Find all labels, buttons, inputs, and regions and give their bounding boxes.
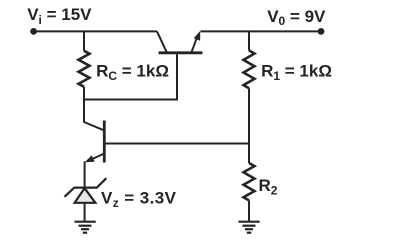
wire DZ anode to ground bbox=[84, 203, 86, 222]
transistor Q2 base bar bbox=[103, 121, 106, 163]
node Vo terminal dot bbox=[318, 28, 325, 35]
transistor Q1 emitter arrow bbox=[194, 31, 201, 41]
wire right branch top (Vo rail to R1) bbox=[248, 30, 250, 50]
transistor Q2 emitter lead bbox=[88, 154, 104, 162]
transistor Q2 collector lead bbox=[84, 122, 104, 131]
wire Q2 base to node B bbox=[104, 143, 250, 145]
node Vi terminal dot bbox=[30, 28, 37, 35]
wire RC top (Vi rail to RC) bbox=[83, 30, 85, 50]
svg-text:V0 = 9V: V0 = 9V bbox=[267, 7, 326, 28]
wire node A to Q1 base bbox=[83, 99, 177, 101]
wire Vi rail (input rail from Vi terminal to Q1 collector) bbox=[34, 30, 157, 32]
wire R2 bottom to ground bbox=[248, 200, 250, 221]
transistor Q1 emitter lead bbox=[191, 36, 197, 53]
wire RC bottom to node A and Q2 collector bbox=[83, 87, 85, 123]
svg-text:Vi = 15V: Vi = 15V bbox=[27, 5, 92, 27]
resistor RC bbox=[79, 51, 90, 87]
wire Vo rail (Q1 emitter to Vo terminal) bbox=[201, 30, 322, 32]
resistor R2 bbox=[244, 163, 255, 200]
ground symbol right (under R2) bbox=[238, 222, 259, 233]
transistor Q1 base bar bbox=[159, 51, 203, 54]
svg-text:Vz = 3.3V: Vz = 3.3V bbox=[101, 188, 177, 210]
transistor Q1 collector lead bbox=[157, 31, 167, 52]
resistor R1 bbox=[244, 50, 255, 88]
zener diode DZ anode triangle bbox=[75, 188, 96, 203]
wire Q1 base lead bbox=[176, 53, 178, 101]
wire Q2 emitter to zener DZ bbox=[84, 162, 86, 189]
svg-text:R1 = 1kΩ: R1 = 1kΩ bbox=[261, 61, 332, 83]
transistor Q2 emitter arrow bbox=[85, 155, 95, 162]
wire R1 bottom to node B and R2 bbox=[248, 88, 250, 163]
svg-text:RC = 1kΩ: RC = 1kΩ bbox=[96, 61, 169, 83]
ground symbol left (under DZ) bbox=[75, 222, 96, 233]
zener diode DZ cathode bar with bent ends bbox=[65, 178, 107, 197]
